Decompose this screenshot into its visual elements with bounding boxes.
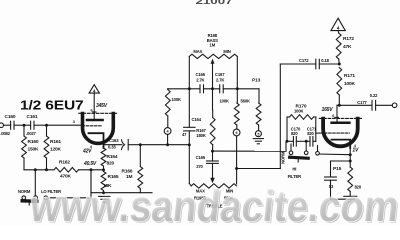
wire C161 to node bbox=[34, 124, 47, 126]
tube V2 envelope dashed top bbox=[319, 117, 361, 119]
tube V2 plate bbox=[332, 122, 350, 125]
svg-text:820: 820 bbox=[107, 160, 115, 166]
svg-text:1/2 6EU7: 1/2 6EU7 bbox=[20, 98, 84, 113]
wire to NORM switch bbox=[34, 170, 36, 196]
plug P13 pin 6 bbox=[233, 129, 240, 136]
svg-text:MIN: MIN bbox=[223, 49, 230, 54]
capacitor C171 bbox=[309, 137, 311, 147]
capacitor .03 (P15 branch) bbox=[325, 176, 337, 178]
output terminal bbox=[392, 103, 397, 108]
node C160/C161/R160 bbox=[23, 124, 26, 127]
svg-text:FILTER: FILTER bbox=[288, 174, 302, 179]
svg-text:42V: 42V bbox=[82, 149, 92, 155]
svg-text:C172: C172 bbox=[299, 58, 309, 63]
svg-text:180K: 180K bbox=[196, 133, 206, 138]
svg-text:R162: R162 bbox=[59, 160, 70, 166]
node P13-4 column / rail bbox=[166, 143, 169, 146]
svg-text:.0082: .0082 bbox=[0, 131, 11, 136]
resistor R160 bbox=[23, 125, 25, 136]
wire R170 left leg bbox=[286, 117, 288, 141]
plug P13 pin 4 bbox=[164, 128, 171, 135]
node treble right / norm wire bbox=[235, 167, 238, 170]
svg-text:C163: C163 bbox=[109, 138, 119, 143]
node rail wiper bbox=[211, 87, 214, 90]
node R165 bottom bbox=[102, 191, 105, 194]
capacitor C166 bbox=[199, 85, 201, 93]
node cathode / P15 branch bbox=[349, 160, 352, 163]
svg-text:R160: R160 bbox=[28, 139, 39, 145]
resistor R162 bbox=[54, 168, 78, 173]
wire C160 to node bbox=[14, 124, 24, 126]
wire norm riser bbox=[285, 142, 287, 152]
svg-text:100K: 100K bbox=[344, 81, 356, 87]
resistor R165 bbox=[101, 172, 106, 191]
svg-text:6: 6 bbox=[332, 114, 334, 118]
wire R170 right leg bbox=[314, 116, 316, 118]
wire bass pot right leg bbox=[236, 56, 238, 88]
svg-text:R164: R164 bbox=[107, 154, 118, 160]
tube V1 envelope (1/2 6EU7) bbox=[83, 114, 114, 144]
svg-text:100K: 100K bbox=[172, 97, 182, 102]
svg-text:NORM: NORM bbox=[281, 151, 286, 164]
svg-text:21007: 21007 bbox=[196, 0, 234, 6]
ground symbol P13-5 bbox=[253, 138, 263, 140]
node rail 100K drop bbox=[236, 87, 239, 90]
svg-text:C160: C160 bbox=[5, 114, 16, 120]
node switch feed bbox=[34, 168, 37, 171]
svg-text:MAX: MAX bbox=[193, 49, 202, 54]
wire cap to ground bbox=[330, 180, 332, 199]
tube V2 plate lead bbox=[336, 105, 338, 121]
wire pin6 down to treble right bbox=[236, 136, 238, 169]
node cathode / switch wire bbox=[349, 153, 352, 156]
wire LO FILTER to ground rail bbox=[48, 197, 91, 199]
svg-text:R171: R171 bbox=[344, 73, 355, 79]
svg-text:HI: HI bbox=[292, 167, 296, 172]
svg-text:P15: P15 bbox=[333, 166, 342, 172]
wire pin4 to rail bbox=[167, 134, 169, 144]
svg-text:270: 270 bbox=[196, 164, 203, 169]
node plate tube2 bbox=[338, 104, 341, 107]
svg-text:C165: C165 bbox=[196, 155, 206, 160]
svg-text:5: 5 bbox=[257, 132, 259, 136]
capacitor C167 bbox=[219, 85, 221, 93]
ground symbol cathode bbox=[344, 195, 357, 197]
capacitor C164 bbox=[188, 89, 190, 128]
wire treble-right to norm column bbox=[237, 168, 281, 170]
svg-text:1M: 1M bbox=[126, 174, 133, 180]
wire cathode column bbox=[349, 148, 351, 167]
svg-text:3: 3 bbox=[73, 120, 75, 124]
svg-text:C177: C177 bbox=[357, 100, 367, 105]
power triangle 4 (345V supply, tube1) bbox=[89, 85, 99, 93]
tube V2 cathode bbox=[332, 140, 351, 148]
power triangle 4 (supply, right) bbox=[331, 18, 345, 30]
capacitor C160 bbox=[10, 121, 12, 129]
wire plate lead tube1 bbox=[93, 93, 95, 119]
svg-text:150K: 150K bbox=[28, 147, 40, 153]
wire bass pot left leg bbox=[188, 56, 190, 88]
svg-text:R166: R166 bbox=[122, 169, 133, 175]
wire grid tube2 to R170 right bbox=[316, 132, 325, 134]
svg-text:120K: 120K bbox=[50, 147, 62, 153]
svg-text:P13: P13 bbox=[252, 78, 261, 84]
svg-text:0.18: 0.18 bbox=[321, 58, 329, 63]
wire input to C160 bbox=[4, 124, 11, 126]
capacitor C165 bbox=[212, 151, 214, 161]
tone rail bbox=[189, 88, 200, 90]
resistor R171 bbox=[337, 68, 342, 95]
wire node to tube grid bbox=[47, 124, 83, 126]
wire hi filter feed bbox=[213, 150, 287, 152]
svg-text:C161: C161 bbox=[27, 114, 38, 120]
svg-text:R165: R165 bbox=[108, 174, 119, 180]
node R172/R171 bbox=[338, 63, 341, 66]
wire rail drop from LO wire bbox=[90, 170, 92, 193]
resistor R166 bbox=[139, 145, 141, 167]
tube V1 cathode bbox=[89, 133, 104, 148]
switch HI FILTER bbox=[290, 144, 292, 151]
node LO wire / rail bbox=[90, 168, 93, 171]
svg-text:R172: R172 bbox=[343, 36, 354, 42]
capacitor C177 bbox=[371, 100, 373, 110]
svg-text:1V: 1V bbox=[352, 147, 359, 153]
bass pot wiper bbox=[212, 64, 214, 89]
resistor R170 bbox=[290, 115, 314, 120]
wire node to C161 bbox=[24, 124, 31, 126]
svg-text:www.sandacite.com: www.sandacite.com bbox=[27, 182, 400, 225]
ground rail bottom bbox=[91, 192, 152, 194]
resistor R167 bbox=[210, 118, 215, 145]
svg-text:1M: 1M bbox=[210, 42, 216, 47]
svg-text:2.7K: 2.7K bbox=[196, 77, 204, 82]
node C170/C171 bbox=[305, 140, 308, 143]
tube V1 grid (dashed) bbox=[82, 125, 102, 127]
svg-text:.0027: .0027 bbox=[26, 131, 37, 136]
capacitor C161 bbox=[30, 121, 32, 129]
ground symbol main bbox=[99, 195, 110, 197]
wire bottom rail mid bbox=[140, 144, 189, 146]
capacitor C172 bbox=[315, 59, 317, 69]
resistor R164 bbox=[101, 148, 106, 166]
svg-text:6: 6 bbox=[236, 131, 238, 135]
wire plate node to C177 bbox=[337, 104, 372, 106]
resistor 820 (cathode) bbox=[348, 167, 353, 191]
wire C163 to node bbox=[128, 144, 140, 146]
tube V1 envelope dashed top bbox=[79, 112, 117, 114]
plug P13 pin 5 bbox=[255, 131, 261, 137]
resistor 560K bbox=[258, 89, 260, 103]
svg-text:470K: 470K bbox=[60, 174, 72, 180]
wire C170 to node bbox=[296, 140, 306, 142]
wire C172 to node bbox=[319, 63, 339, 65]
tube V1 plate bbox=[87, 119, 103, 122]
wire bottom rail left bbox=[24, 169, 54, 171]
svg-text:NORM: NORM bbox=[18, 189, 31, 194]
treble pot wiper arrow bbox=[212, 163, 214, 178]
wire cathode to hi-filter contact bbox=[318, 153, 350, 156]
svg-text:820: 820 bbox=[307, 131, 314, 136]
resistor 100K (to P13-6) bbox=[236, 89, 238, 103]
svg-text:0.22: 0.22 bbox=[370, 93, 378, 98]
node C165 / hi-filter wire bbox=[211, 150, 214, 153]
wire C171 to R170 right leg bbox=[306, 140, 310, 142]
svg-text:820: 820 bbox=[291, 131, 298, 136]
node C161/R161 bbox=[45, 124, 48, 127]
svg-text:165V: 165V bbox=[322, 107, 334, 113]
svg-text:4: 4 bbox=[337, 26, 340, 31]
svg-text:2.7K: 2.7K bbox=[216, 77, 224, 82]
resistor R161 bbox=[46, 125, 48, 136]
wire P15 branch bbox=[331, 160, 351, 162]
svg-text:100K: 100K bbox=[220, 99, 230, 104]
node C164 / treble-left / rail bbox=[188, 143, 191, 146]
node R161 bottom bbox=[45, 168, 48, 171]
svg-text:40.5V: 40.5V bbox=[83, 161, 97, 167]
tube V2 envelope bbox=[323, 119, 358, 147]
node hi-filter left bbox=[286, 140, 289, 143]
svg-text:100K: 100K bbox=[294, 108, 304, 113]
watermark www.sandacite.com bbox=[27, 182, 400, 233]
wire tone input node bbox=[168, 88, 190, 90]
svg-text:47K: 47K bbox=[343, 44, 352, 50]
input terminal bbox=[0, 123, 4, 128]
node tone input bbox=[188, 87, 191, 90]
svg-text:R161: R161 bbox=[50, 139, 61, 145]
wire C177 to output bbox=[376, 104, 393, 106]
capacitor C170 bbox=[287, 140, 293, 142]
wire wiper col upper bbox=[212, 89, 214, 110]
svg-text:R167: R167 bbox=[196, 128, 206, 133]
resistor R172 bbox=[337, 31, 340, 33]
svg-text:C164: C164 bbox=[192, 117, 202, 122]
resistor 100K (tone input) bbox=[167, 88, 169, 91]
svg-text:560K: 560K bbox=[241, 99, 251, 104]
capacitor C163 bbox=[122, 140, 125, 150]
tube V2 grid (dashed) bbox=[325, 132, 350, 134]
svg-text:345V: 345V bbox=[96, 103, 108, 109]
node C163/R166/rail bbox=[139, 143, 142, 146]
treble pot R198B 500K bbox=[191, 184, 236, 188]
svg-text:0.33: 0.33 bbox=[108, 144, 116, 149]
node R164/R165/R162 bbox=[102, 168, 105, 171]
wire cathode to C163 bbox=[104, 144, 122, 146]
wire norm column vertical bbox=[279, 64, 281, 169]
wire C172 run bbox=[280, 63, 316, 65]
